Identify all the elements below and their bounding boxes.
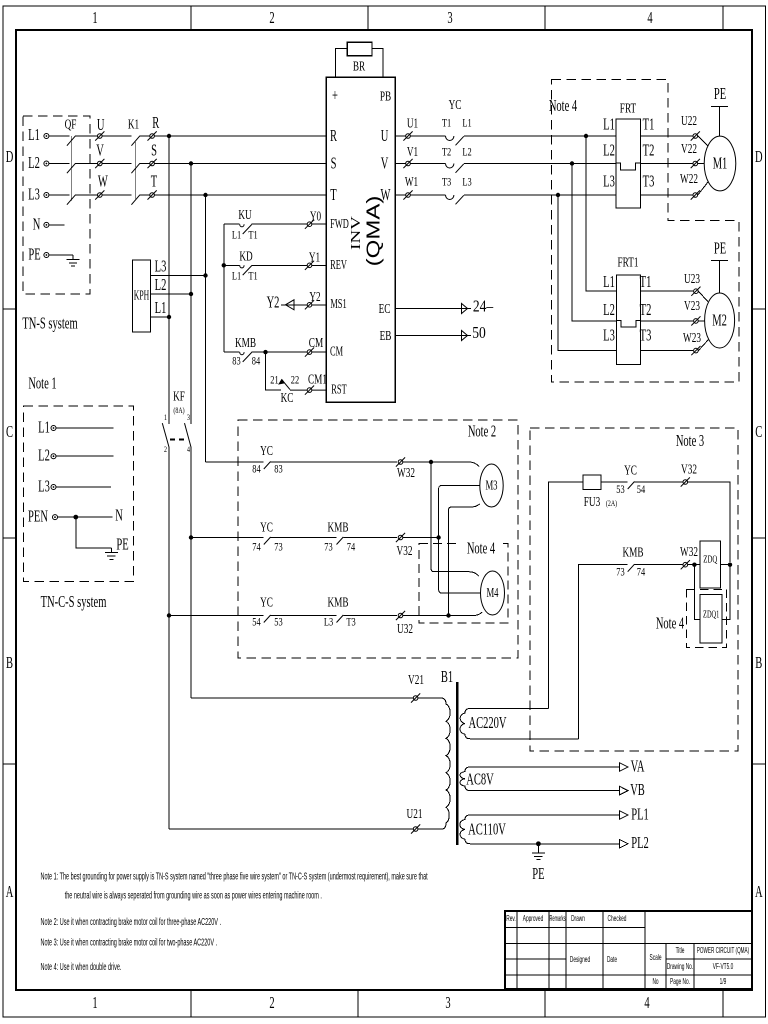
svg-text:FRT1: FRT1 [617, 254, 638, 271]
braking resistor BR [336, 42, 384, 77]
wire L1 TN-C-S [56, 427, 114, 429]
svg-text:TN-S system: TN-S system [22, 314, 77, 333]
svg-text:50: 50 [472, 323, 486, 342]
junction control bus REV [222, 263, 226, 267]
svg-text:ZDQ1: ZDQ1 [703, 608, 719, 620]
svg-text:L3: L3 [155, 257, 167, 276]
wire L1 row [49, 135, 326, 137]
svg-text:KF: KF [173, 388, 185, 405]
wire M3 mid feed [439, 486, 480, 538]
svg-text:KMB: KMB [327, 519, 348, 536]
svg-text:+: + [332, 86, 338, 105]
svg-text:N: N [33, 215, 41, 234]
terminal L3 TN-C-S [51, 485, 56, 490]
contactor K1 pole 2 [131, 163, 140, 173]
KPH stub L2 [151, 293, 192, 295]
svg-text:CM: CM [309, 334, 324, 351]
contact KMB row2 [337, 537, 344, 545]
junction Note2 row3 tap [167, 613, 171, 617]
svg-text:VF-VT5.0: VF-VT5.0 [713, 963, 734, 971]
junction row2 [436, 535, 440, 539]
svg-text:L3: L3 [462, 176, 471, 189]
contact YC 53/54 n3 [628, 482, 635, 490]
svg-text:V32: V32 [681, 461, 697, 478]
contact YC T2 [446, 164, 464, 173]
svg-text:T: T [151, 172, 158, 191]
svg-text:L2: L2 [462, 146, 471, 159]
svg-text:Note 3: Note 3 [676, 431, 704, 450]
svg-text:YC: YC [624, 462, 637, 479]
svg-text:W: W [98, 172, 108, 191]
inverter INV (QMA) box [326, 77, 395, 402]
svg-text:24–: 24– [473, 297, 494, 316]
breaker QF pole 1 [67, 136, 76, 146]
wire REV row [224, 264, 326, 266]
svg-text:(QMA): (QMA) [363, 196, 384, 267]
junction ZDQ right [728, 563, 732, 567]
connector V23 [691, 316, 700, 325]
bottom zone ticks [191, 990, 723, 1017]
contact KMB n3 [628, 564, 635, 572]
svg-text:AC220V: AC220V [468, 713, 507, 732]
wire row3 to junction [403, 615, 449, 617]
svg-text:Note 2: Note 2 [468, 422, 496, 441]
svg-text:T1: T1 [640, 272, 652, 291]
junction U row to FRT1 [584, 134, 588, 138]
connector V32 n2 [396, 533, 405, 542]
wire L2 row [49, 163, 326, 165]
svg-text:L1: L1 [232, 270, 241, 283]
svg-text:3: 3 [447, 8, 452, 27]
note texts bottom [41, 871, 429, 973]
wire PEN to N [58, 516, 113, 518]
connector U [95, 131, 104, 140]
svg-text:L2: L2 [603, 300, 615, 319]
svg-text:Checked: Checked [608, 915, 627, 923]
wire W row right [395, 194, 616, 196]
contact YC 84/83 [264, 462, 271, 470]
svg-text:QF: QF [65, 116, 77, 133]
wire M3 top feed [431, 462, 479, 467]
svg-text:B1: B1 [441, 667, 453, 686]
vertical bus phase W (x=205.5) [205, 195, 207, 462]
svg-text:T1: T1 [248, 270, 257, 283]
svg-text:73: 73 [616, 566, 624, 579]
motor M3 [480, 464, 503, 507]
fuse FU3 [583, 475, 601, 489]
svg-text:TN-C-S system: TN-C-S system [41, 592, 107, 611]
svg-text:V22: V22 [681, 140, 697, 157]
wire U21 row [169, 828, 441, 830]
wire M4 bottom feed [449, 612, 483, 616]
svg-text:CM1: CM1 [308, 371, 327, 388]
svg-text:RST: RST [331, 383, 346, 398]
switch KF linkage [170, 439, 187, 441]
svg-text:22: 22 [291, 374, 299, 387]
svg-text:Rev.: Rev. [506, 915, 516, 923]
svg-text:PE: PE [28, 245, 40, 264]
svg-text:PB: PB [380, 88, 391, 105]
connector W32 n2 [396, 457, 405, 466]
svg-text:A: A [6, 882, 14, 901]
svg-text:Note 1: The best grounding fo: Note 1: The best grounding for power sup… [41, 871, 429, 882]
junction node S-row [189, 161, 193, 165]
svg-text:D: D [755, 147, 763, 166]
svg-text:Y2: Y2 [267, 293, 280, 312]
connector Y1 [305, 261, 314, 270]
svg-text:KMB: KMB [327, 594, 348, 611]
wire L3 row [49, 194, 326, 196]
connector W1 [403, 190, 412, 199]
connector S [148, 159, 157, 168]
svg-text:INV: INV [348, 216, 364, 250]
wire ZDQ1 right [722, 565, 730, 620]
svg-text:Date: Date [607, 956, 617, 964]
label Note 4 inner [461, 539, 501, 558]
svg-text:Page No.: Page No. [670, 978, 690, 986]
contact KD [240, 265, 252, 275]
connector U21 [411, 824, 420, 833]
svg-text:S: S [151, 141, 157, 160]
contactor K1 pole 3 [131, 195, 140, 205]
wire V32 to right vertical [688, 482, 730, 562]
svg-text:C: C [755, 422, 762, 441]
right margin zone ticks [752, 309, 766, 764]
svg-text:U: U [381, 126, 389, 145]
svg-text:FRT: FRT [620, 100, 637, 117]
svg-text:2: 2 [269, 993, 274, 1012]
Note 4 dashed box ZDQ1 [686, 590, 726, 648]
svg-text:4: 4 [644, 993, 649, 1012]
svg-text:2: 2 [164, 444, 167, 454]
svg-text:4: 4 [187, 444, 190, 454]
thermal relay FRT1 body [617, 275, 641, 364]
breaker QF pole 3 [67, 195, 76, 205]
ground symbol PE bottom [532, 844, 545, 860]
connector Y2 [305, 300, 314, 309]
contact KMB row3 [337, 615, 344, 623]
wire EB with arrow [395, 335, 471, 337]
svg-text:POWER CIRCUIT (QMA): POWER CIRCUIT (QMA) [697, 947, 749, 956]
title block texts [506, 915, 749, 987]
svg-text:L1: L1 [38, 418, 50, 437]
contactor K1 pole 1 [131, 136, 140, 146]
svg-text:73: 73 [324, 541, 332, 554]
KPH stub L1 [151, 316, 170, 318]
contact KMB control [240, 352, 252, 362]
svg-text:M1: M1 [713, 154, 728, 173]
svg-text:T3: T3 [346, 616, 355, 629]
svg-text:(8A): (8A) [173, 405, 185, 415]
svg-text:Designed: Designed [570, 956, 590, 964]
branch to RST row [266, 352, 282, 390]
svg-text:U21: U21 [407, 805, 423, 822]
ground symbol TN-C-S PE [105, 548, 118, 559]
wires FRT to M1 connectors [641, 136, 693, 195]
svg-text:CM: CM [330, 345, 343, 360]
svg-text:AC8V: AC8V [466, 770, 494, 789]
svg-text:1: 1 [92, 993, 97, 1012]
junction W row to FRT1 [556, 193, 560, 197]
svg-text:D: D [6, 147, 14, 166]
wire M3 bottom feed [449, 504, 480, 616]
left margin zone ticks [3, 309, 16, 764]
arrow VB [620, 786, 628, 794]
svg-text:T: T [330, 185, 337, 204]
title block frame [505, 911, 752, 989]
connector V21 [411, 693, 420, 702]
svg-text:1: 1 [92, 8, 97, 27]
svg-text:S: S [331, 154, 337, 173]
arrow EB [462, 331, 468, 341]
svg-text:4: 4 [647, 8, 652, 27]
wire PE stub [49, 254, 73, 256]
brake coil ZDQ1 [700, 594, 722, 643]
svg-text:FU3: FU3 [584, 493, 600, 510]
svg-text:T1: T1 [442, 117, 451, 130]
terminal L2 TN-C-S [51, 454, 56, 459]
connector W [95, 190, 104, 199]
wire W32 to ZDQ [688, 564, 700, 566]
transformer B1 primary winding [441, 698, 450, 829]
svg-text:Remarks: Remarks [550, 915, 566, 924]
FRT1 feeder verticals [558, 136, 617, 351]
svg-text:ZDQ: ZDQ [703, 553, 717, 565]
svg-text:EB: EB [380, 327, 392, 344]
svg-text:53: 53 [274, 616, 282, 629]
svg-text:W23: W23 [683, 329, 701, 346]
svg-text:A: A [755, 882, 763, 901]
svg-text:Scale: Scale [650, 954, 662, 962]
svg-text:1: 1 [164, 412, 167, 422]
svg-text:W22: W22 [680, 170, 698, 187]
KPH stub L3 [151, 275, 206, 277]
svg-text:YC: YC [260, 594, 273, 611]
svg-text:U23: U23 [684, 270, 700, 287]
svg-text:U: U [97, 115, 105, 134]
control bus vertical x=223.8 [223, 224, 225, 352]
svg-text:L2: L2 [28, 153, 40, 172]
svg-text:KU: KU [238, 206, 252, 223]
connector V32 n3 [681, 477, 690, 486]
motor M4 [481, 571, 505, 615]
connector U1 [403, 131, 412, 140]
svg-text:V1: V1 [407, 143, 418, 160]
svg-text:Title: Title [676, 947, 685, 955]
junction PE on PL2 [536, 841, 541, 846]
connector CM [305, 348, 314, 357]
terminal L2 [44, 161, 49, 166]
svg-text:VA: VA [631, 757, 645, 776]
arrow PL2 [620, 840, 628, 848]
motor M1 [704, 136, 736, 191]
svg-text:T1: T1 [643, 115, 655, 134]
svg-text:PL1: PL1 [631, 805, 649, 824]
svg-text:Note 4: Note 4 [549, 96, 577, 115]
svg-text:83: 83 [232, 355, 240, 368]
connector T [148, 190, 157, 199]
svg-text:YC: YC [449, 96, 462, 113]
arrow PL1 [620, 811, 628, 819]
motor M1 leads [698, 136, 709, 195]
arrow EC [462, 304, 468, 314]
junction V row to FRT1 [570, 161, 574, 165]
svg-text:T3: T3 [643, 172, 655, 191]
junction node R-row [167, 134, 171, 138]
svg-text:R: R [152, 113, 159, 132]
junction KPH L2 tap [189, 292, 193, 296]
svg-text:the neutral wire is always sep: the neutral wire is always seperated fro… [65, 890, 322, 901]
svg-text:FWD: FWD [330, 217, 349, 232]
svg-text:74: 74 [637, 566, 646, 579]
transformer secondary AC8V [460, 767, 620, 791]
connector U32 n2 [396, 611, 405, 620]
svg-text:L1: L1 [232, 229, 241, 242]
svg-text:BR: BR [353, 58, 365, 75]
junction CM branch [263, 350, 267, 354]
svg-text:YC: YC [260, 442, 273, 459]
connector U22 [691, 131, 700, 140]
wire Note2 row2 [191, 537, 397, 539]
switch KF pole 1 [162, 423, 169, 447]
svg-text:L1: L1 [603, 272, 615, 291]
junction KPH L3 tap [203, 273, 207, 277]
wire FWD row [224, 223, 326, 225]
connector W23 [691, 346, 700, 355]
svg-text:74: 74 [252, 541, 261, 554]
contact YC T3 [446, 195, 464, 204]
wire L3 TN-C-S [56, 486, 111, 488]
svg-text:V: V [96, 141, 104, 160]
connector U23 [691, 287, 700, 296]
svg-text:PE: PE [532, 864, 544, 883]
svg-text:V32: V32 [397, 542, 413, 559]
brake coil ZDQ [700, 541, 720, 588]
svg-text:KMB: KMB [622, 544, 643, 561]
connector V1 [403, 159, 412, 168]
TN-C-S Note1 dashed box [24, 406, 134, 582]
wire row2 to junction [403, 537, 439, 539]
breaker QF pole 2 [67, 163, 76, 173]
wire ZDQ right [720, 564, 730, 566]
contact YC T1 [446, 136, 464, 145]
wire AC220V bottom to KMB row [579, 565, 683, 739]
svg-text:Drawing No.: Drawing No. [667, 963, 693, 971]
svg-text:V21: V21 [408, 671, 424, 688]
wires FRT1 to M2 connectors [640, 291, 693, 350]
wire row1 to junction [403, 461, 431, 463]
connector R [148, 131, 157, 140]
svg-text:C: C [6, 422, 13, 441]
svg-text:VB: VB [630, 780, 645, 799]
wire Note2 row1 [206, 461, 398, 463]
connector W22 [691, 190, 700, 199]
wire U row right [395, 135, 616, 137]
wire M4 top feed [431, 462, 479, 576]
svg-text:L1: L1 [603, 115, 615, 134]
svg-text:Note 4: Use it when double dri: Note 4: Use it when double drive. [41, 961, 122, 972]
svg-text:T1: T1 [248, 229, 257, 242]
svg-text:N: N [115, 506, 123, 525]
Note 4 inner dashed box [419, 544, 508, 624]
switch KF pole 2 [185, 423, 192, 447]
svg-text:L1: L1 [462, 117, 471, 130]
svg-text:84: 84 [252, 355, 261, 368]
wire N stub [49, 224, 65, 226]
svg-text:PE: PE [714, 239, 726, 258]
svg-text:AC110V: AC110V [468, 820, 506, 839]
wire Note2 row3 [169, 615, 397, 617]
junction ZDQ left [692, 563, 696, 567]
svg-text:B: B [6, 653, 13, 672]
svg-text:MS1: MS1 [330, 297, 346, 312]
svg-text:L2: L2 [603, 141, 615, 160]
svg-text:KPH: KPH [134, 289, 149, 304]
svg-text:EC: EC [379, 300, 391, 317]
svg-text:Note 4: Note 4 [656, 614, 684, 633]
svg-text:Note 1: Note 1 [28, 374, 56, 393]
svg-text:L1: L1 [28, 125, 40, 144]
Note 3 dashed box [530, 428, 738, 751]
svg-text:T2: T2 [442, 146, 451, 159]
svg-text:L1: L1 [155, 298, 167, 317]
junction row1 [429, 460, 433, 464]
svg-text:Note 4: Note 4 [467, 539, 495, 558]
transformer secondary AC220V [460, 709, 579, 739]
svg-text:KMB: KMB [235, 334, 256, 351]
svg-text:L3: L3 [28, 185, 40, 204]
svg-text:YC: YC [260, 519, 273, 536]
breaker QF linkage [70, 136, 72, 201]
svg-text:M2: M2 [712, 311, 727, 330]
svg-text:(2A): (2A) [606, 498, 618, 508]
svg-text:No: No [652, 978, 658, 986]
svg-text:R: R [330, 126, 337, 145]
arrow Y2 left [286, 300, 295, 310]
svg-text:PE: PE [714, 84, 726, 103]
wire AC220V top to FU3 row [549, 482, 583, 709]
svg-text:L3: L3 [603, 172, 615, 191]
ground symbol PE TN-S [67, 255, 80, 266]
connector Y0 [305, 220, 314, 229]
svg-text:3: 3 [445, 993, 450, 1012]
svg-text:Note 2: Use it when contracti: Note 2: Use it when contracting brake mo… [41, 916, 222, 927]
svg-text:B: B [755, 653, 762, 672]
contact KU [240, 224, 252, 234]
transformer B1 core [456, 682, 458, 845]
TN-S system dashed box [23, 116, 90, 294]
wire V21 row [191, 697, 441, 699]
vertical bus phase V (x=191) [190, 164, 192, 699]
wire MS1 row with Y2 source arrow [281, 304, 326, 306]
svg-text:V: V [381, 154, 389, 173]
svg-text:U1: U1 [407, 115, 418, 132]
svg-text:L2: L2 [155, 275, 167, 294]
motor M2 [705, 293, 735, 348]
arrow VA [620, 763, 628, 771]
svg-text:PL2: PL2 [631, 834, 649, 853]
svg-text:L3: L3 [38, 477, 50, 496]
svg-text:U32: U32 [397, 620, 413, 637]
junction PEN split [73, 515, 78, 520]
svg-text:Note 3: Use it when contractin: Note 3: Use it when contracting brake mo… [41, 937, 218, 948]
svg-text:53: 53 [616, 484, 624, 497]
svg-text:V23: V23 [684, 297, 700, 314]
contact YC 74/73 [264, 537, 271, 545]
svg-text:Y2: Y2 [309, 288, 320, 305]
thermal relay FRT body [616, 119, 641, 208]
terminal L3 [44, 193, 49, 198]
